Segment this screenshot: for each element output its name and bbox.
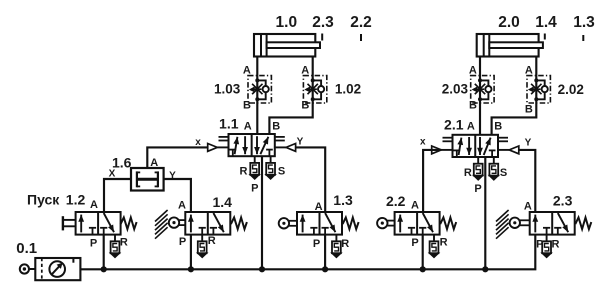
svg-text:Y: Y	[525, 138, 532, 149]
silencer on port R of 1.2	[114, 235, 116, 242]
junction at 1.3 P	[322, 266, 328, 272]
svg-text:A: A	[315, 201, 323, 213]
wire valve 2.1 P to bus	[484, 157, 486, 269]
node: tick mark 2.2	[360, 34, 362, 41]
svg-text:B: B	[272, 120, 280, 132]
silencer on port R of 1.1	[254, 156, 256, 163]
wire valve 1.1 P to bus	[261, 156, 263, 269]
svg-text:A: A	[411, 200, 419, 212]
wire cylinder 1.0 right port to valve 1.1 port B (through 1.02)	[269, 57, 312, 135]
svg-text:1.0: 1.0	[276, 14, 298, 31]
silencer on port R of 1.3	[335, 235, 337, 242]
svg-text:2.03: 2.03	[442, 82, 469, 97]
svg-text:R: R	[464, 167, 472, 179]
valve 1.1 (5/2-way pilot valve)	[229, 134, 275, 156]
cylinder 1.0	[254, 34, 315, 57]
node: tick mark 2.3 (limit position of cylinder 1.0)	[321, 34, 323, 41]
svg-text:B: B	[469, 99, 477, 111]
svg-text:1.03: 1.03	[214, 82, 241, 97]
wire valve 1.4 P to bus	[190, 235, 192, 270]
svg-text:A: A	[178, 200, 186, 212]
flow control valve 2.03	[471, 76, 494, 103]
svg-text:A: A	[243, 64, 251, 76]
wall hatching at 1.4	[155, 210, 168, 222]
svg-text:A: A	[525, 64, 533, 76]
wire valve 1.2 P to bus	[103, 235, 105, 270]
spring of 1.2	[121, 218, 137, 230]
svg-text:2.2: 2.2	[386, 193, 406, 209]
wire pilot Y of 2.1 down to valve 2.3 port A	[519, 150, 536, 212]
silencer on port S of 2.1	[493, 157, 495, 164]
wire shuttle 1.6 input X from valve 1.2 port A	[104, 179, 131, 212]
wire cylinder 2.0 right port to valve 2.1 port B (through 2.02)	[492, 57, 537, 135]
svg-text:A: A	[469, 64, 477, 76]
flow control valve 1.03	[248, 76, 271, 103]
junction at 2.2 P	[420, 266, 426, 272]
svg-text:B: B	[525, 104, 533, 116]
svg-text:2.2: 2.2	[350, 14, 372, 31]
wire cylinder 1.0 left port to valve 1.1 port A (through 1.03)	[256, 57, 258, 135]
svg-text:1.4: 1.4	[535, 14, 557, 31]
svg-text:2.1: 2.1	[444, 117, 464, 133]
silencer on port S of 1.1	[270, 156, 272, 163]
valve 2.1 (5/2-way pilot valve)	[453, 135, 499, 157]
svg-text:P: P	[536, 239, 543, 251]
wire pilot X of 2.1 down to valve 2.2 port A	[423, 150, 441, 212]
valve 2.3 (3/2-way roller valve, actuated)	[530, 212, 575, 235]
spring of 2.2	[440, 218, 456, 230]
roller actuator of 2.2	[377, 218, 387, 228]
svg-text:A: A	[244, 120, 252, 132]
svg-text:2.02: 2.02	[558, 82, 584, 97]
roller actuator of 1.4	[169, 217, 179, 227]
svg-text:2.3: 2.3	[312, 14, 334, 31]
silencer on port R of 2.2	[433, 235, 435, 242]
svg-text:2.3: 2.3	[553, 192, 573, 208]
roller actuator of 2.3	[510, 218, 520, 228]
svg-text:P: P	[179, 236, 186, 248]
wire valve 2.2 P to bus	[422, 235, 424, 270]
svg-text:Пуск: Пуск	[27, 192, 60, 208]
flow control valve 1.02	[303, 76, 326, 103]
air supply unit 0.1	[20, 264, 29, 273]
svg-text:S: S	[500, 167, 507, 179]
roller actuator of 1.3	[279, 218, 289, 228]
spring of 1.4	[231, 218, 247, 230]
svg-text:P: P	[251, 182, 258, 194]
main pressure line (bus)	[80, 235, 535, 270]
svg-text:B: B	[494, 121, 502, 133]
svg-text:B: B	[301, 99, 309, 111]
svg-text:P: P	[90, 238, 97, 250]
svg-text:1.02: 1.02	[335, 82, 361, 97]
svg-text:P: P	[313, 238, 320, 250]
silencer on port R of 1.4	[201, 235, 203, 242]
wire cylinder 2.0 left port to valve 2.1 port A (through 2.03)	[479, 57, 481, 135]
svg-text:P: P	[411, 237, 418, 249]
svg-text:2.0: 2.0	[498, 14, 520, 31]
svg-text:R: R	[240, 166, 248, 178]
junction at 1.1 P	[259, 266, 265, 272]
svg-text:x: x	[420, 137, 426, 148]
junction at 2.1 P	[482, 266, 488, 272]
wire pilot Y of 1.1 down to valve 1.3 port A	[296, 147, 326, 212]
wall hatching at 2.3	[496, 210, 509, 222]
cylinder 2.0	[477, 34, 539, 57]
svg-text:A: A	[90, 199, 98, 211]
valve 1.2 (3/2-way push-button valve, start)	[76, 212, 121, 235]
valve 1.3 (3/2-way roller valve)	[297, 212, 342, 235]
shuttle valve 1.6	[131, 168, 164, 191]
svg-text:A: A	[524, 200, 532, 212]
wire valve 1.3 P to bus	[324, 235, 326, 270]
svg-text:S: S	[278, 166, 285, 178]
junction at 1.4 P	[188, 266, 194, 272]
node: tick mark 1.3	[582, 35, 584, 41]
svg-text:1.3: 1.3	[333, 192, 353, 208]
svg-text:R: R	[120, 237, 128, 249]
svg-text:B: B	[243, 99, 251, 111]
svg-text:1.2: 1.2	[66, 192, 86, 208]
spring of 1.3	[343, 218, 359, 230]
svg-text:Y: Y	[297, 137, 304, 148]
valve 1.4 (3/2-way roller valve, actuated)	[185, 212, 230, 235]
valve 2.2 (3/2-way roller valve)	[395, 212, 440, 235]
wire shuttle 1.6 input Y from valve 1.4 port A	[164, 179, 191, 212]
wire pilot X of 1.1 from shuttle valve 1.6 output A	[147, 147, 207, 168]
svg-text:A: A	[301, 64, 309, 76]
svg-text:R: R	[552, 239, 560, 251]
svg-text:R: R	[440, 236, 448, 248]
push button actuator of 1.2	[62, 216, 64, 230]
junction at 1.2 P	[101, 266, 107, 272]
flow control valve 2.02	[527, 76, 550, 103]
svg-text:R: R	[341, 238, 349, 250]
svg-text:A: A	[467, 121, 475, 133]
svg-text:A: A	[150, 157, 158, 169]
svg-text:1.4: 1.4	[213, 194, 233, 210]
svg-text:1.3: 1.3	[573, 14, 595, 31]
svg-text:1.1: 1.1	[219, 116, 239, 132]
svg-text:R: R	[208, 235, 216, 247]
svg-text:P: P	[474, 183, 481, 195]
spring of 2.3	[575, 218, 591, 230]
silencer on port R of 2.1	[477, 157, 479, 164]
silencer on port R of 2.3	[546, 235, 548, 242]
svg-text:0.1: 0.1	[16, 240, 37, 257]
node: tick mark 1.4 (limit position of cylinder 2.0)	[544, 34, 546, 40]
